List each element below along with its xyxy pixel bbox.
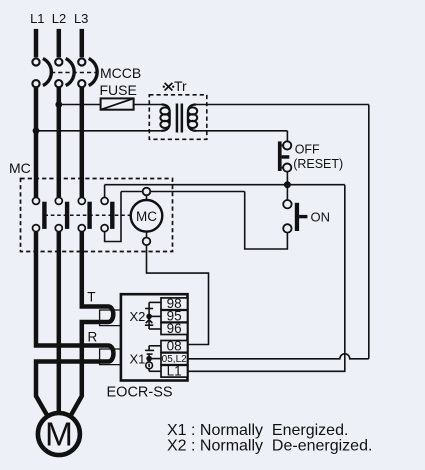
wire L2 phase MCCB to MC [57,88,62,198]
svg-text:ON: ON [311,209,331,224]
wire aux bottom to coil-top rail [105,192,121,242]
svg-text:M: M [45,416,73,453]
transformer core bars [176,104,183,133]
wire L1 phase top drop [34,29,39,57]
wire L1 tap to transformer bottom [36,130,163,132]
contactor MC main contact 1 [33,197,47,231]
terminal 98 [161,296,188,311]
junction dot on L2 [55,101,62,108]
transformer Tr label reference mark [163,83,175,91]
svg-text:X1: X1 [130,351,146,366]
relay contact X1 [145,346,161,372]
junction dot on L1 [33,127,40,134]
wire T return to motor [70,322,108,417]
fuse body [101,98,134,109]
wire secondary top to right rail [195,104,369,106]
wire OFF drop [286,131,288,142]
contactor MC dashed box [21,179,173,252]
wire R phase MC to motor with EOCR loop [36,232,109,346]
terminal 96 [161,321,188,336]
coil MC top terminal [143,188,151,196]
contactor MC linkage dashed [44,214,130,216]
wire coil-top rail [121,191,245,193]
coil MC body [131,200,163,232]
pushbutton OFF (NC) [278,141,291,171]
svg-text:L1: L1 [167,363,182,378]
svg-text:T: T [87,290,95,305]
svg-text:Tr: Tr [174,78,187,94]
terminal 95 [161,308,188,323]
relay EOCR notch R [100,349,121,365]
wire junction to L1 terminal [188,185,345,372]
wire fuse to transformer [134,104,163,106]
wire right rail vertical [368,105,370,359]
terminal 08 [161,339,188,354]
svg-text:EOCR-SS: EOCR-SS [107,385,173,401]
svg-text:L3: L3 [74,11,88,26]
relay contact X2 [145,302,161,329]
svg-text:FUSE: FUSE [100,82,137,98]
CT loop R arc [109,346,114,362]
wire aux top riser [104,185,106,198]
wire R return to motor [36,362,109,417]
wire ON bottom to coil-top rail [245,192,288,250]
wire L3 phase top drop [80,29,85,57]
svg-text:MCCB: MCCB [100,65,141,81]
transformer primary winding [160,105,169,131]
breaker MCCB linkage dashed [51,72,98,74]
wire T phase MC to EOCR loop [82,232,109,307]
contactor MC main contact 2 [55,197,69,231]
wire junction rail [105,184,345,186]
motor M [38,413,80,455]
terminal L1 [161,363,188,378]
breaker MCCB pole 1 [32,58,51,87]
svg-text:08: 08 [167,339,182,354]
breaker MCCB pole 2 [55,58,74,87]
svg-text:X2 : Normally De-energized.: X2 : Normally De-energized. [167,438,372,455]
svg-text:(RESET): (RESET) [293,157,343,171]
wire L3 phase MCCB to MC [80,88,85,198]
svg-text:L1: L1 [30,11,44,26]
wire coil bottom to 08 terminal [147,245,209,344]
svg-text:X1 : Normally Energized.: X1 : Normally Energized. [167,422,348,439]
wire L2 phase top drop [57,29,62,57]
svg-text:OFF: OFF [295,143,320,157]
wire secondary bottom to OFF [195,130,288,132]
wire OFF to junction [286,172,288,185]
svg-text:X2: X2 [130,309,146,324]
wire 05L2 terminal to right rail with hop [188,354,369,359]
breaker MCCB pole 3 [78,58,97,87]
wire L2 tap to fuse [59,104,101,106]
terminal 05L2 [161,353,188,365]
wire S phase MC to motor [57,232,62,414]
coil MC bottom terminal [143,238,151,246]
svg-text:MC: MC [136,209,157,224]
contactor MC main contact 3 [78,197,92,231]
transformer Tr dashed box [149,95,207,140]
svg-text:R: R [88,330,98,345]
junction dot OFF/ON [284,181,291,188]
coil MC stub bottom [146,232,148,238]
svg-text:96: 96 [167,321,182,336]
relay EOCR box [121,294,188,380]
relay EOCR notch T [100,310,121,326]
pushbutton ON (NO) [283,200,307,233]
CT loop T arc [109,307,114,323]
transformer secondary winding [188,105,197,131]
svg-text:MC: MC [9,160,31,176]
coil MC stub top [146,195,148,200]
contactor MC aux contact [101,197,114,231]
svg-text:L2: L2 [52,11,66,26]
wire junction to ON [286,185,288,200]
wire L1 phase MCCB to MC [34,88,39,198]
